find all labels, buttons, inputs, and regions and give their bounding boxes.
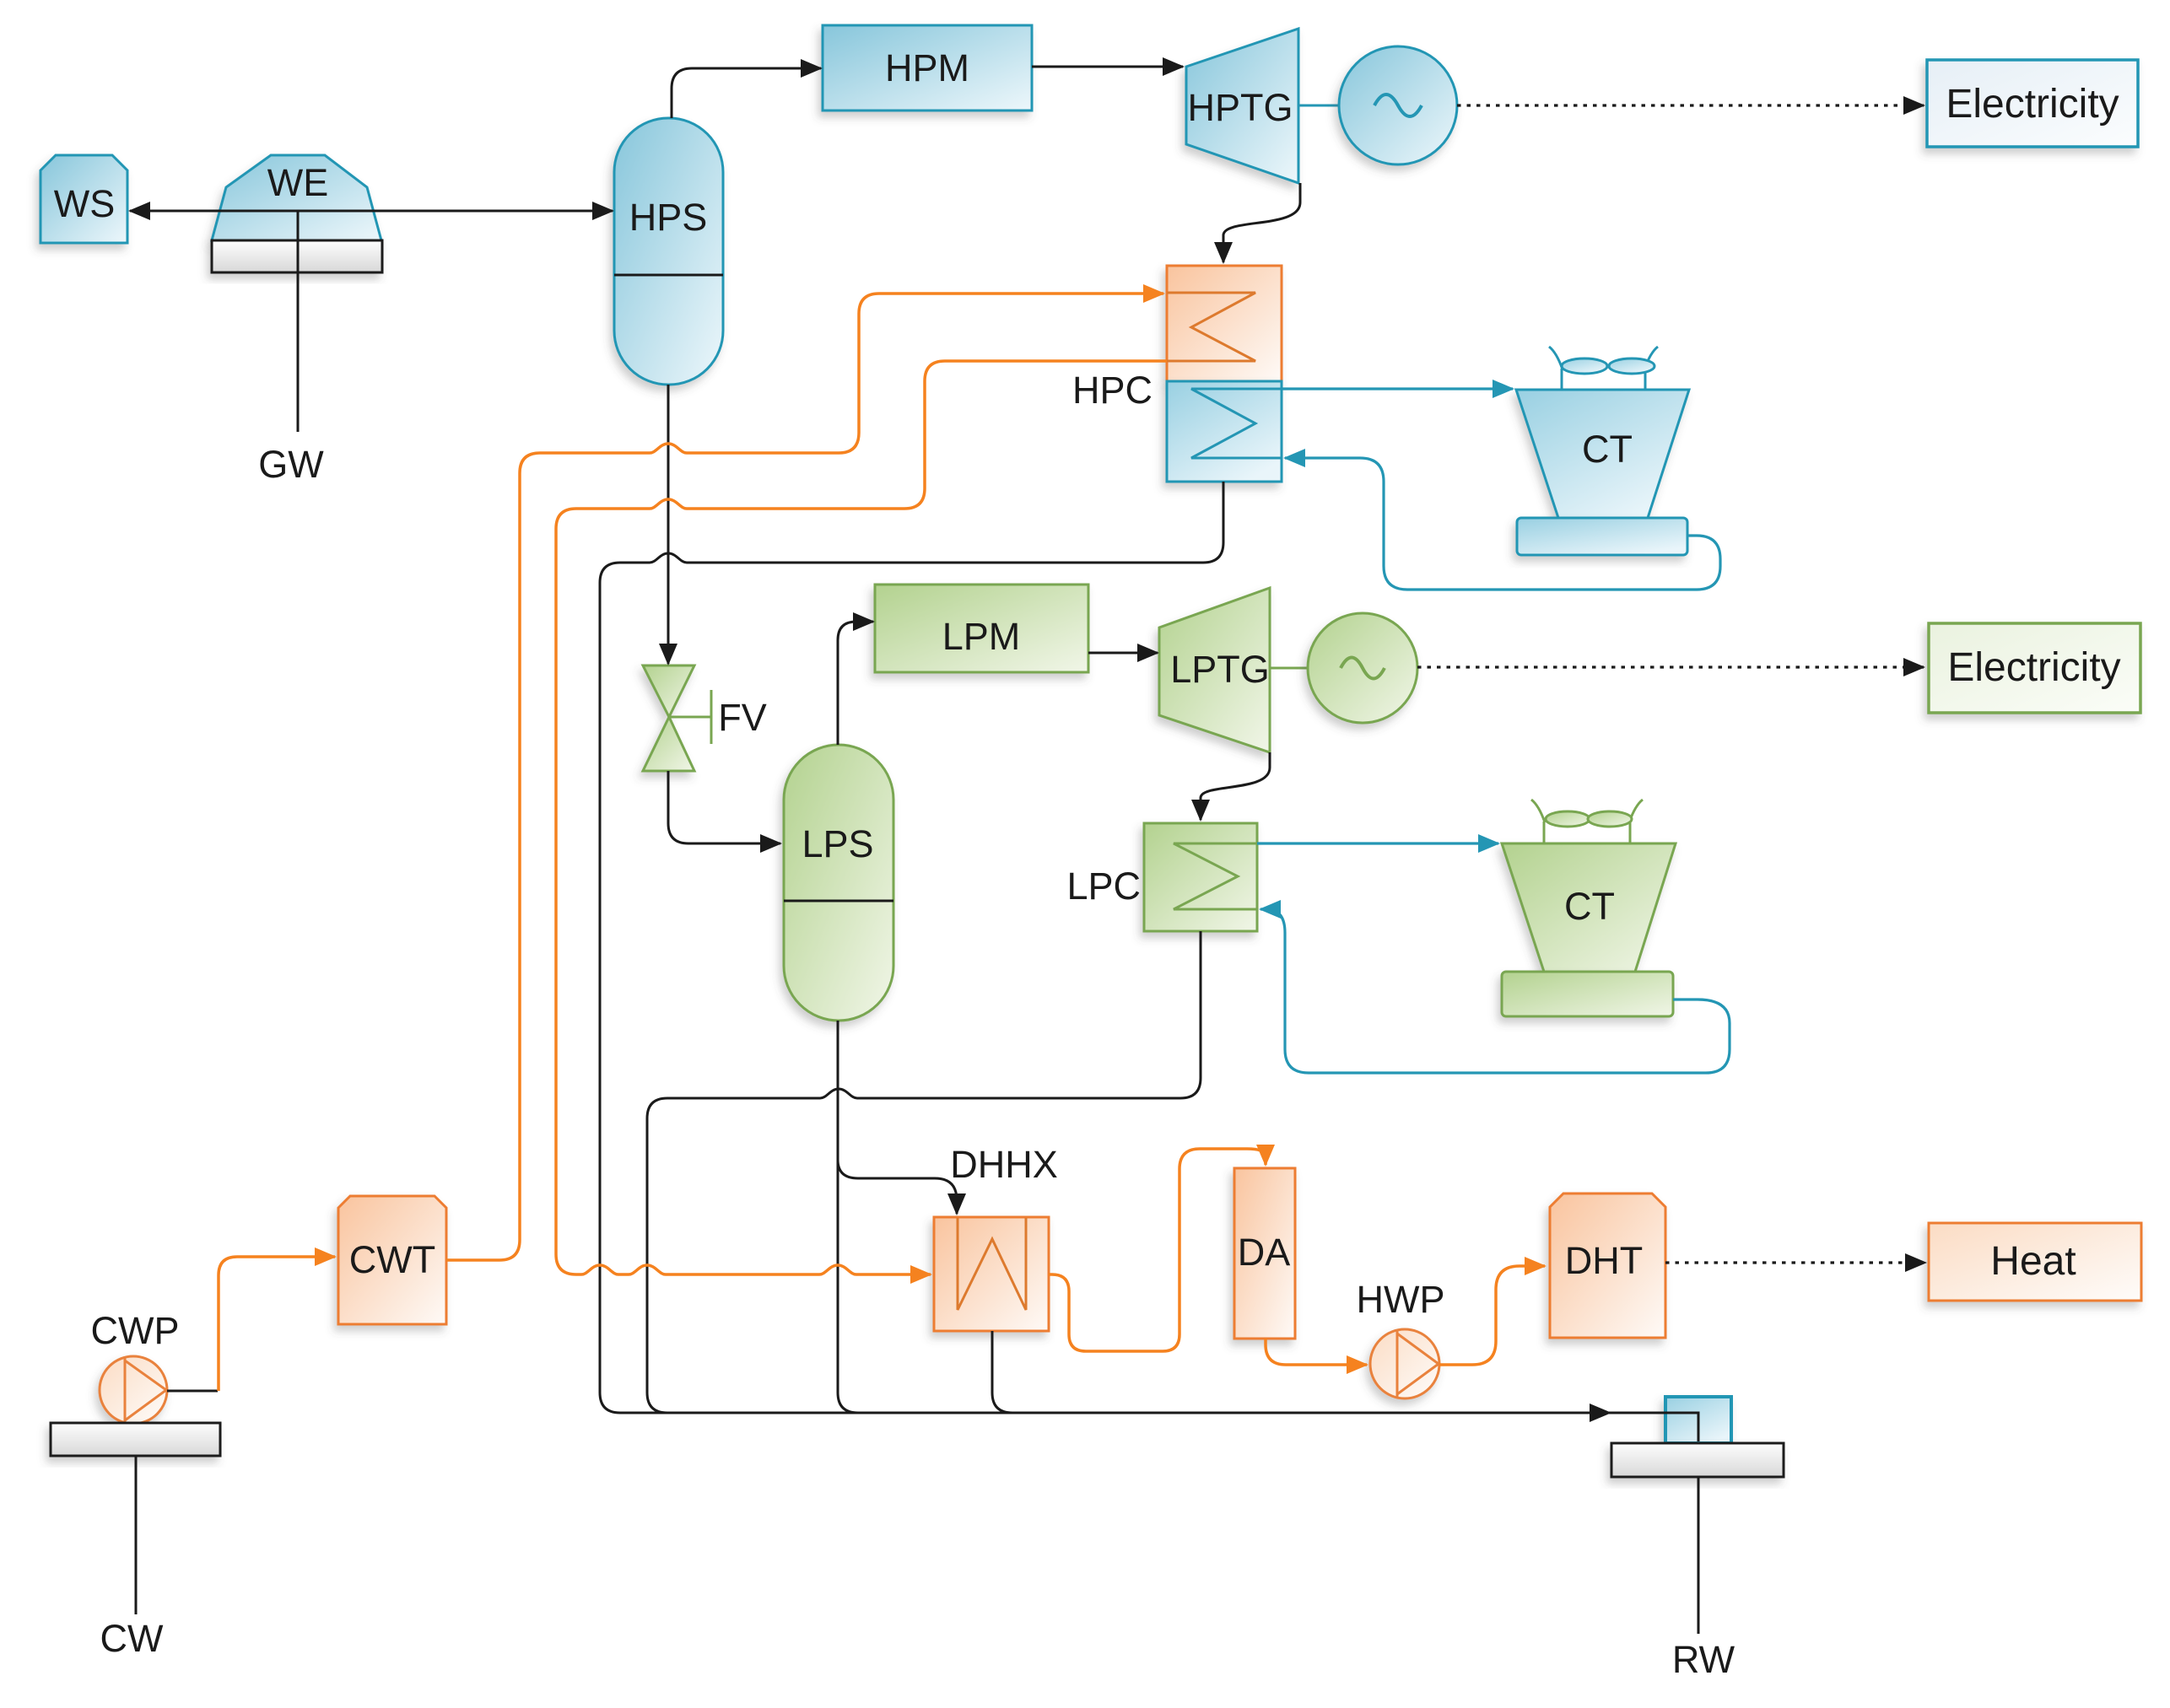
pipe DA to HWP	[1266, 1339, 1367, 1365]
svg-text:CWT: CWT	[349, 1238, 435, 1281]
wire HPS bottom to FV	[667, 385, 670, 664]
svg-text:CT: CT	[1582, 428, 1633, 471]
tank WS	[40, 155, 127, 243]
deaerator DA	[1234, 1168, 1295, 1339]
cooling tower CT (LP loop)	[1502, 800, 1676, 1016]
wire LPC drain to reinjection header	[647, 931, 1201, 1413]
wire well RW below platform	[1698, 1477, 1700, 1634]
wire dashed LP generator to Electricity	[1417, 665, 1924, 668]
output box Electricity (HP)	[1927, 60, 2138, 147]
pipe CWT to HPC coil inlet	[446, 294, 1163, 1260]
generator of HPTG	[1298, 46, 1457, 164]
wire HPS top to HPM	[672, 68, 821, 118]
expansion valve FV	[643, 665, 711, 771]
pipe CT return to HPC	[1285, 458, 1720, 590]
pump HWP	[1370, 1329, 1439, 1398]
svg-text:CT: CT	[1564, 885, 1615, 928]
separator vessel HPS	[614, 118, 723, 385]
pipe HPC cold out to CT	[1282, 387, 1513, 390]
svg-text:LPM: LPM	[942, 615, 1021, 658]
svg-text:DA: DA	[1238, 1231, 1291, 1274]
svg-text:Electricity: Electricity	[1946, 82, 2119, 127]
svg-text:Heat: Heat	[1990, 1239, 2076, 1284]
platform of well CW	[51, 1423, 220, 1456]
svg-text:RW: RW	[1672, 1638, 1735, 1681]
svg-text:FV: FV	[718, 696, 767, 739]
svg-text:HPC: HPC	[1072, 369, 1152, 412]
turbine HPTG	[1186, 29, 1298, 183]
heat exchanger DHHX	[934, 1217, 1049, 1331]
pump CWP	[100, 1356, 167, 1424]
wire dashed DHT to Heat	[1665, 1261, 1925, 1263]
wire LPS drain to reinjection header	[838, 1021, 1004, 1413]
platform of well GW	[212, 240, 382, 272]
wire DHHX drain to reinjection header	[992, 1331, 1063, 1413]
svg-text:CW: CW	[100, 1617, 164, 1660]
svg-text:GW: GW	[258, 443, 324, 486]
wire LPM to LPTG	[1088, 652, 1158, 655]
svg-text:LPS: LPS	[802, 822, 873, 865]
generator of LPTG	[1270, 613, 1417, 723]
wire WE to WS (arrow left)	[130, 210, 298, 213]
wellhead block RW	[1665, 1397, 1731, 1443]
svg-text:HPS: HPS	[629, 196, 708, 239]
svg-text:CWP: CWP	[91, 1309, 180, 1352]
mixer LPM	[875, 585, 1088, 672]
svg-text:LPC: LPC	[1066, 865, 1141, 908]
output box Heat	[1929, 1223, 2141, 1301]
svg-text:DHT: DHT	[1565, 1239, 1643, 1282]
svg-text:HPTG: HPTG	[1187, 86, 1293, 129]
wire LPS top to LPM	[838, 622, 873, 745]
platform of well RW	[1611, 1443, 1784, 1477]
svg-text:HWP: HWP	[1357, 1278, 1445, 1321]
svg-text:HPM: HPM	[885, 46, 969, 89]
heat exchanger HPC cold side	[1167, 381, 1282, 482]
wire CWP to riser (black stub)	[167, 1390, 218, 1393]
wire well CW below platform	[135, 1456, 138, 1614]
pipe CWP riser to CWT	[219, 1257, 335, 1391]
svg-text:Electricity: Electricity	[1947, 645, 2120, 690]
wire reinjection header step into RW	[1610, 1413, 1698, 1441]
wire WE to HPS (arrow right)	[298, 210, 613, 213]
tank DHT	[1550, 1193, 1665, 1338]
turbine LPTG	[1159, 588, 1270, 752]
wire riser inside WE down to well GW	[297, 211, 300, 432]
cooling tower CT (HP loop)	[1516, 347, 1689, 555]
tank CWT	[338, 1196, 446, 1324]
svg-text:WE: WE	[267, 161, 329, 204]
condenser LPC	[1144, 823, 1257, 931]
output box Electricity (LP)	[1929, 623, 2140, 713]
wire HPM to HPTG	[1032, 66, 1183, 68]
pipe CT return to LPC	[1260, 909, 1730, 1073]
wire LPS branch to DHHX	[838, 1160, 957, 1214]
mixer HPM	[823, 25, 1032, 110]
pipe HPC coil outlet to DHHX	[556, 361, 1167, 1274]
wellhead enclosure WE	[212, 155, 381, 240]
wire LPTG exhaust to LPC	[1201, 752, 1270, 820]
wire HPTG exhaust to HPC	[1223, 183, 1300, 262]
pipe HWP to DHT	[1439, 1266, 1545, 1365]
svg-text:LPTG: LPTG	[1170, 648, 1270, 691]
svg-text:WS: WS	[54, 182, 116, 225]
pipe DHHX out to DA	[1049, 1149, 1266, 1351]
separator vessel LPS	[784, 745, 893, 1021]
wire dashed HP generator to Electricity	[1457, 104, 1924, 106]
pipe LPC out to CT	[1257, 842, 1498, 844]
wire HPC drain to reinjection header	[600, 482, 1610, 1413]
heat exchanger HPC hot side	[1167, 266, 1282, 381]
svg-text:DHHX: DHHX	[950, 1143, 1058, 1186]
wire FV to LPS	[668, 771, 780, 843]
